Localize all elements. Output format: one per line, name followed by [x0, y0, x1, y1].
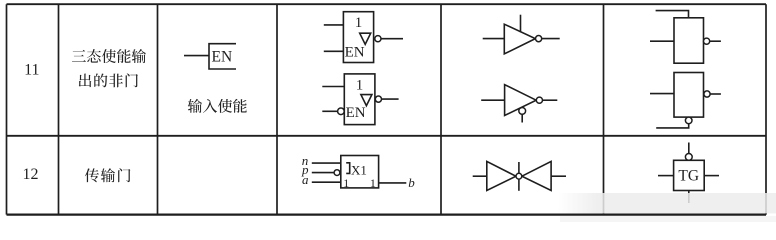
U2 output wire: [382, 98, 399, 100]
gate control wire (top): [518, 162, 520, 173]
svg-text:12: 12: [23, 166, 39, 183]
svg-text:1: 1: [356, 77, 364, 93]
analog switch X1 body: [341, 156, 379, 188]
transmission gate left triangle: [487, 161, 516, 190]
U6 enable negation bubble (bottom): [685, 117, 692, 124]
left wire: [473, 175, 487, 177]
U6 output bubble: [704, 91, 710, 97]
svg-text:X1: X1: [351, 162, 367, 177]
U1 input wire: [324, 24, 344, 26]
U3 output bubble: [536, 36, 542, 42]
U5 input wire: [650, 40, 674, 42]
TG left wire: [658, 175, 674, 177]
U4 input wire: [481, 99, 504, 101]
X1 control-association bracket: [346, 163, 350, 174]
TG control wire (bottom, faded): [688, 191, 690, 204]
U6 output wire: [710, 93, 721, 95]
TG control negation bubble (top): [685, 154, 692, 161]
U4 enable negation bubble (bottom): [519, 108, 526, 115]
U3 input wire: [483, 38, 505, 40]
U3 output wire: [542, 38, 560, 40]
caption: 输入使能: [188, 99, 247, 113]
svg-text:1: 1: [343, 176, 349, 190]
table bottom border: [7, 213, 767, 215]
svg-text:1: 1: [355, 15, 363, 31]
svg-text:EN: EN: [346, 105, 366, 121]
buffer U5 body: [674, 18, 704, 63]
U1 tri-state triangle marker: [360, 33, 371, 44]
transmission gate right triangle: [522, 161, 551, 190]
U1 output wire: [381, 38, 403, 40]
p negation bubble: [334, 170, 340, 176]
svg-text:1: 1: [370, 176, 376, 190]
tri-state gate U2 body: [344, 74, 375, 125]
svg-text:11: 11: [24, 62, 39, 79]
wire n: [312, 162, 341, 164]
wire: EN input lead: [184, 55, 209, 57]
EN enable-input symbol frame: [209, 44, 236, 69]
gate control wire (bottom): [518, 179, 520, 191]
inverter U3 triangle: [504, 24, 535, 54]
U2 EN input wire: [322, 110, 337, 112]
TG control wire (top): [688, 143, 690, 154]
U5 output bubble: [704, 38, 710, 44]
watermark blur patch: [558, 193, 776, 213]
U1 output inversion bubble: [375, 36, 381, 42]
svg-text:TG: TG: [678, 168, 699, 185]
svg-text:a: a: [302, 172, 309, 187]
U3 enable wire (top): [520, 15, 522, 33]
inverter U4 triangle: [505, 85, 537, 116]
X1 output wire: [379, 182, 407, 184]
U6 input wire: [650, 93, 674, 95]
gate center bubble: [516, 173, 522, 179]
U1 EN input wire: [324, 50, 344, 52]
U4 output bubble: [536, 97, 542, 103]
buffer U6 body: [674, 73, 704, 118]
svg-text:EN: EN: [212, 49, 233, 66]
U4 enable wire (bottom): [521, 114, 523, 122]
U6 enable wire (bottom): [656, 124, 689, 128]
row label: 传输门: [85, 168, 131, 182]
U2 tri-state triangle marker: [361, 95, 372, 106]
right wire: [551, 175, 566, 177]
U4 output wire: [543, 99, 558, 101]
U2 output inversion bubble: [375, 96, 381, 102]
U2 EN negation bubble: [338, 108, 345, 115]
TG right wire: [704, 175, 719, 177]
row label: 三态使能输出的非门: [72, 49, 146, 87]
svg-text:EN: EN: [345, 44, 365, 60]
U2 input wire: [322, 86, 344, 88]
TG body: [674, 160, 705, 190]
wire p: [312, 172, 334, 174]
tri-state gate U1 body: [343, 12, 373, 63]
U5 output wire: [710, 40, 721, 42]
U5 enable wire from top: [656, 11, 689, 18]
svg-text:b: b: [408, 175, 415, 190]
wire a: [312, 181, 341, 183]
